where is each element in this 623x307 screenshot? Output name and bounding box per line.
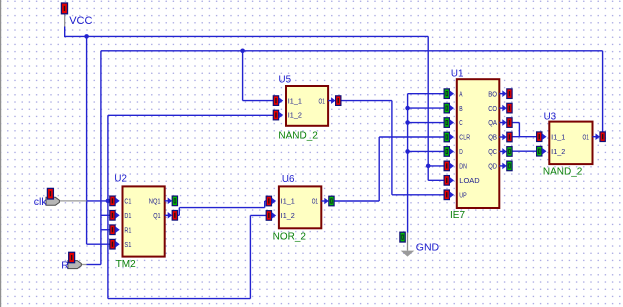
svg-text:U3: U3 (544, 112, 557, 123)
junction B (405, 106, 410, 111)
svg-text:QD: QD (488, 162, 497, 171)
wire clk vertical (107, 115, 109, 298)
svg-text:QA: QA (488, 118, 497, 127)
svg-text:D: D (459, 147, 463, 156)
wire QA jog horizontal (512, 122, 519, 124)
svg-text:UP: UP (459, 190, 467, 199)
wire VCC stem gray (64, 14, 66, 28)
wire U6 output vertical (378, 137, 380, 201)
svg-text:U2: U2 (114, 174, 127, 185)
pin I1_1 of U3 (537, 132, 547, 142)
wire D1 stub (101, 214, 110, 216)
wire Q1 to U6 segment e (265, 200, 267, 202)
svg-text:I1_1: I1_1 (288, 96, 302, 105)
svg-text:O1: O1 (312, 197, 318, 206)
pin R1 of U2 (110, 225, 120, 235)
wire GND vertical (407, 94, 409, 233)
wire QA jog vertical (518, 123, 520, 137)
port clk gray stub (59, 200, 87, 202)
svg-text:LOAD: LOAD (459, 176, 479, 185)
wire S1 horizontal (87, 243, 110, 245)
GND stem (407, 233, 409, 251)
wire R1 stub (101, 229, 110, 231)
pin B of U1 (444, 103, 454, 113)
svg-text:NQ1: NQ1 (149, 197, 161, 206)
flip-flop U2 body (123, 186, 165, 256)
wire CLR horizontal (379, 136, 444, 138)
svg-text:Q1: Q1 (153, 211, 160, 220)
wire VCC right vertical (427, 36, 429, 180)
svg-text:CLR: CLR (459, 133, 470, 142)
svg-text:C1: C1 (124, 197, 131, 206)
svg-text:O1: O1 (319, 96, 325, 105)
port clk symbol (46, 197, 59, 205)
pin D1 of U2 (110, 211, 120, 221)
wire clk to U5 I1_2 (108, 114, 273, 116)
wire QC to U3 I1_2 (512, 150, 537, 152)
wire VCC vertical (64, 27, 66, 37)
wire Q1 to U6 segment b (178, 208, 180, 216)
gate U6 body (279, 186, 321, 228)
sheet left edge (0, 0, 1, 307)
pin I1_1 of U5 (273, 96, 283, 106)
junction VCC/S1 (84, 34, 89, 39)
junction C (405, 120, 410, 125)
pin I1_2 of U3 (537, 146, 547, 156)
wire bottom horizontal (108, 298, 251, 300)
wire D horizontal (408, 150, 445, 152)
svg-text:I1_1: I1_1 (281, 197, 295, 206)
pin A of U1 (444, 89, 454, 99)
svg-text:CO: CO (488, 104, 497, 113)
svg-text:A: A (459, 89, 462, 98)
svg-text:I1_2: I1_2 (288, 111, 302, 120)
pin NQ1 of U2 (165, 196, 178, 206)
svg-text:GND: GND (416, 242, 440, 254)
svg-text:O1: O1 (583, 132, 589, 141)
pin Q1 of U2 (165, 211, 178, 221)
svg-text:R1: R1 (124, 225, 131, 234)
port clk pin box (47, 188, 53, 199)
pin CO of U1 (499, 103, 512, 113)
pin BO of U1 (499, 89, 512, 99)
svg-text:I1_1: I1_1 (551, 132, 565, 141)
port R gray stub (80, 264, 87, 266)
svg-text:TM2: TM2 (116, 259, 136, 270)
pin I1_2 of U6 (266, 211, 276, 221)
svg-text:U1: U1 (451, 68, 464, 79)
svg-text:S1: S1 (124, 240, 131, 249)
wire U3out horizontal y51 (101, 50, 603, 52)
GND triangle (401, 251, 415, 257)
wire VCC to S1 vertical (86, 36, 88, 244)
svg-text:NAND_2: NAND_2 (543, 167, 583, 178)
wire U3out left vertical (100, 51, 102, 265)
svg-text:BO: BO (488, 89, 497, 98)
svg-text:D1: D1 (124, 211, 131, 220)
pin C of U1 (444, 118, 454, 128)
port R symbol (68, 261, 81, 269)
wire R port horizontal (87, 264, 101, 266)
wire U3out to O1 vertical (602, 51, 604, 132)
svg-text:QC: QC (488, 147, 497, 156)
junction D (405, 149, 410, 154)
pin QC of U1 (499, 147, 512, 157)
wire Q1 to U6 segment c (179, 207, 264, 209)
power port VCC pin box (61, 3, 67, 14)
wire drop to U5 I1_1 (242, 51, 244, 101)
svg-text:clk: clk (34, 196, 48, 208)
wire DN stub (428, 165, 444, 167)
junction U5 I1_1 feed (240, 49, 245, 54)
pin D of U1 (444, 147, 454, 157)
pin I1_1 of U6 (266, 196, 276, 206)
wire U5 I1_1 horizontal (243, 100, 274, 102)
wire QB to U3 I1_1 (512, 136, 537, 138)
wire UP horizontal (392, 194, 444, 196)
pin C1 of U2 (110, 196, 120, 206)
wire A horizontal (408, 93, 445, 95)
svg-text:I1_2: I1_2 (281, 211, 295, 220)
svg-text:IE7: IE7 (450, 210, 465, 221)
pin QA of U1 (499, 118, 512, 128)
wire U6 output horizontal (334, 200, 379, 202)
pin CLR of U1 (444, 132, 454, 142)
svg-text:QB: QB (488, 133, 497, 142)
pin O1 of U5 (328, 96, 341, 106)
wire C horizontal (408, 122, 445, 124)
svg-text:C: C (459, 118, 462, 127)
junction DN (426, 164, 431, 169)
gate U3 body (549, 122, 592, 165)
svg-text:U6: U6 (282, 174, 295, 185)
power port GND pin box (400, 232, 405, 242)
port R pin box (69, 252, 75, 262)
wire bottom up vertical (249, 215, 251, 298)
wire Q1 to U6 segment d (264, 201, 266, 208)
wire VCC top horizontal (64, 35, 428, 37)
pin QD of U1 (499, 161, 512, 171)
svg-text:DN: DN (459, 162, 467, 171)
svg-text:R: R (61, 260, 69, 272)
gate U5 body (286, 86, 328, 126)
pin LOAD of U1 (444, 176, 454, 186)
svg-text:U5: U5 (279, 75, 292, 86)
pin QB of U1 (499, 132, 512, 142)
wire Q1 to U6 segment a (178, 214, 180, 216)
svg-text:B: B (459, 104, 463, 113)
junction clk (106, 199, 111, 204)
svg-text:NAND_2: NAND_2 (278, 131, 318, 142)
wire U5 output horizontal (341, 100, 392, 102)
pin DN of U1 (444, 161, 454, 171)
wire B horizontal (408, 107, 445, 109)
pin UP of U1 (444, 190, 454, 200)
pin S1 of U2 (110, 239, 120, 249)
svg-text:I1_2: I1_2 (551, 147, 565, 156)
wire LOAD stub (428, 179, 444, 181)
wire U5 output vertical (391, 101, 393, 195)
wire U6 I1_2 stub (250, 214, 266, 216)
pin O1 of U3 (593, 132, 606, 142)
pin O1 of U6 (321, 196, 334, 206)
svg-text:NOR_2: NOR_2 (273, 232, 307, 243)
wire clk horizontal (87, 200, 110, 202)
svg-text:VCC: VCC (69, 15, 92, 27)
pin I1_2 of U5 (273, 110, 283, 120)
counter U1 body (457, 79, 500, 208)
